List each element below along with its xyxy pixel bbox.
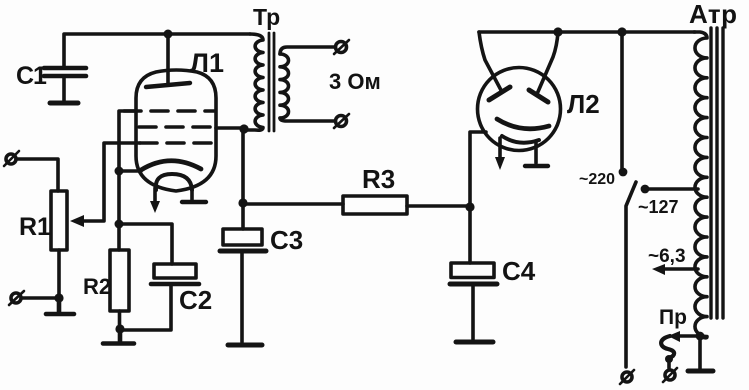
tube L2 cathode (497, 119, 549, 129)
wire B+ drop to R3 node (241, 130, 245, 203)
node 220V contact (619, 168, 628, 177)
svg-text:3 Ом: 3 Ом (329, 69, 381, 94)
node primary bottom (239, 124, 248, 133)
wire grid3 exit to R1 wiper (70, 143, 140, 227)
tube L1 grid 1 (top, dashed) (124, 109, 214, 113)
tube L2 right anode (529, 32, 558, 102)
ground C1 (50, 101, 78, 106)
tube L2 envelope (478, 68, 561, 151)
transformer Tr secondary winding (280, 54, 289, 118)
tube L1 anode plate (146, 83, 190, 87)
transformer Tr primary winding (245, 34, 263, 130)
node R2/C2 bottom junction (115, 324, 124, 333)
resistor R1 (potentiometer) (19, 191, 67, 250)
tube L1 envelope (136, 70, 216, 191)
wire top-right AC rail (479, 30, 695, 34)
node input bottom junction (54, 293, 63, 302)
node R3 left / C3 (238, 198, 247, 207)
node R3 right / C4 (465, 202, 474, 211)
svg-text:Тр: Тр (253, 4, 280, 30)
node anode junction (164, 30, 173, 39)
wire input top to R1 (16, 159, 58, 191)
node switch tap (617, 27, 626, 36)
tube L1 grid 3 (bottom, dashed) (140, 141, 214, 145)
wire heater left lead with arrow (150, 188, 160, 213)
svg-text:~6,3: ~6,3 (648, 246, 686, 267)
wire secondary top lead (280, 47, 335, 54)
ground C3 (228, 343, 262, 348)
tube L2 heater (502, 136, 539, 143)
svg-text:R2: R2 (83, 274, 111, 299)
ground R2 (103, 329, 134, 344)
svg-text:~220: ~220 (579, 171, 615, 188)
svg-text:Пр: Пр (659, 306, 687, 329)
svg-text:Л2: Л2 (567, 89, 600, 119)
svg-text:Л1: Л1 (190, 48, 224, 78)
tube L1 grid 2 (middle, dashed) (139, 125, 214, 129)
tube L1 cathode (141, 161, 201, 170)
wire anode lead (166, 34, 170, 84)
wire L2 heater right lead (534, 142, 538, 163)
fuse Pr (659, 306, 687, 368)
transformer Tr core (269, 33, 274, 131)
wire winding bottom to fuse (668, 331, 700, 342)
wire R2 bottom (118, 311, 122, 329)
capacitor C1 (16, 62, 86, 101)
wire screen grid to primary bottom (216, 126, 244, 130)
node cathode junction (115, 167, 124, 176)
ground Atr (688, 369, 713, 374)
switch blade (626, 182, 636, 367)
autotransformer Atr winding (694, 32, 707, 338)
ground C4 (456, 340, 493, 345)
wire grid1 exit to cathode-R2 bus (119, 111, 136, 250)
wire 127V tap (645, 187, 698, 191)
wire R3 right (407, 204, 470, 208)
terminal speaker bottom (334, 114, 349, 128)
node right anode tap (553, 27, 562, 36)
svg-text:C2: C2 (179, 285, 212, 315)
wire C2 branch (119, 224, 172, 264)
wire C2 bottom to R2 bottom (121, 286, 171, 330)
wire R1 bottom (57, 250, 61, 298)
svg-text:~127: ~127 (638, 197, 679, 217)
capacitor C4 (450, 207, 536, 339)
terminal input top (4, 151, 19, 166)
node winding bottom (696, 332, 705, 341)
capacitor C3 (220, 203, 303, 342)
wire L2 heater left lead with arrow (495, 138, 505, 170)
wire 6.3V tap with arrow (652, 264, 698, 275)
svg-text:R3: R3 (362, 164, 395, 194)
autotransformer Atr core (711, 28, 723, 318)
resistor R2 (83, 250, 129, 311)
terminal switch bottom (620, 370, 634, 384)
wire heater right lead (190, 188, 194, 200)
wire input bottom to junction (22, 296, 59, 300)
terminal input bottom (9, 291, 24, 305)
resistor R3 (343, 164, 407, 214)
ground L2 heater (525, 164, 548, 168)
wire R3 left (243, 202, 343, 206)
wire cathode tie (119, 169, 141, 173)
capacitor C2 (151, 264, 212, 315)
svg-text:R1: R1 (19, 213, 51, 241)
wire top-left B+ rail (64, 34, 250, 66)
wire 220V drop (620, 32, 624, 170)
tube L2 left anode (479, 32, 510, 100)
tube L1 heater (156, 174, 192, 190)
ground L1 heater (182, 200, 206, 204)
wire B+ riser to L2 cathode (470, 132, 486, 205)
node 127V contact (641, 185, 650, 194)
wire Atr ground lead (698, 336, 702, 369)
svg-text:C1: C1 (16, 62, 47, 90)
svg-text:Атр: Атр (689, 0, 738, 29)
terminal fuse bottom (663, 368, 677, 382)
svg-text:C4: C4 (502, 256, 536, 286)
wire secondary bottom lead (280, 118, 334, 121)
terminal speaker top (334, 40, 349, 54)
svg-text:C3: C3 (270, 225, 303, 255)
node C2 branch (115, 220, 124, 229)
ground input bottom (46, 298, 74, 314)
